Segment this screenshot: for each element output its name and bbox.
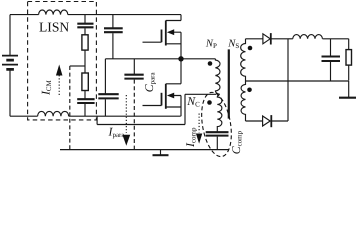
svg-text:ICM: ICM bbox=[39, 79, 54, 96]
svg-text:NS: NS bbox=[227, 38, 239, 50]
svg-text:NC: NC bbox=[186, 94, 200, 109]
svg-text:NP: NP bbox=[205, 38, 217, 50]
svg-text:Icomp: Icomp bbox=[183, 127, 198, 148]
svg-text:Ipara: Ipara bbox=[108, 125, 126, 140]
svg-text:Cpara: Cpara bbox=[142, 71, 157, 92]
svg-text:LISN: LISN bbox=[39, 19, 69, 34]
